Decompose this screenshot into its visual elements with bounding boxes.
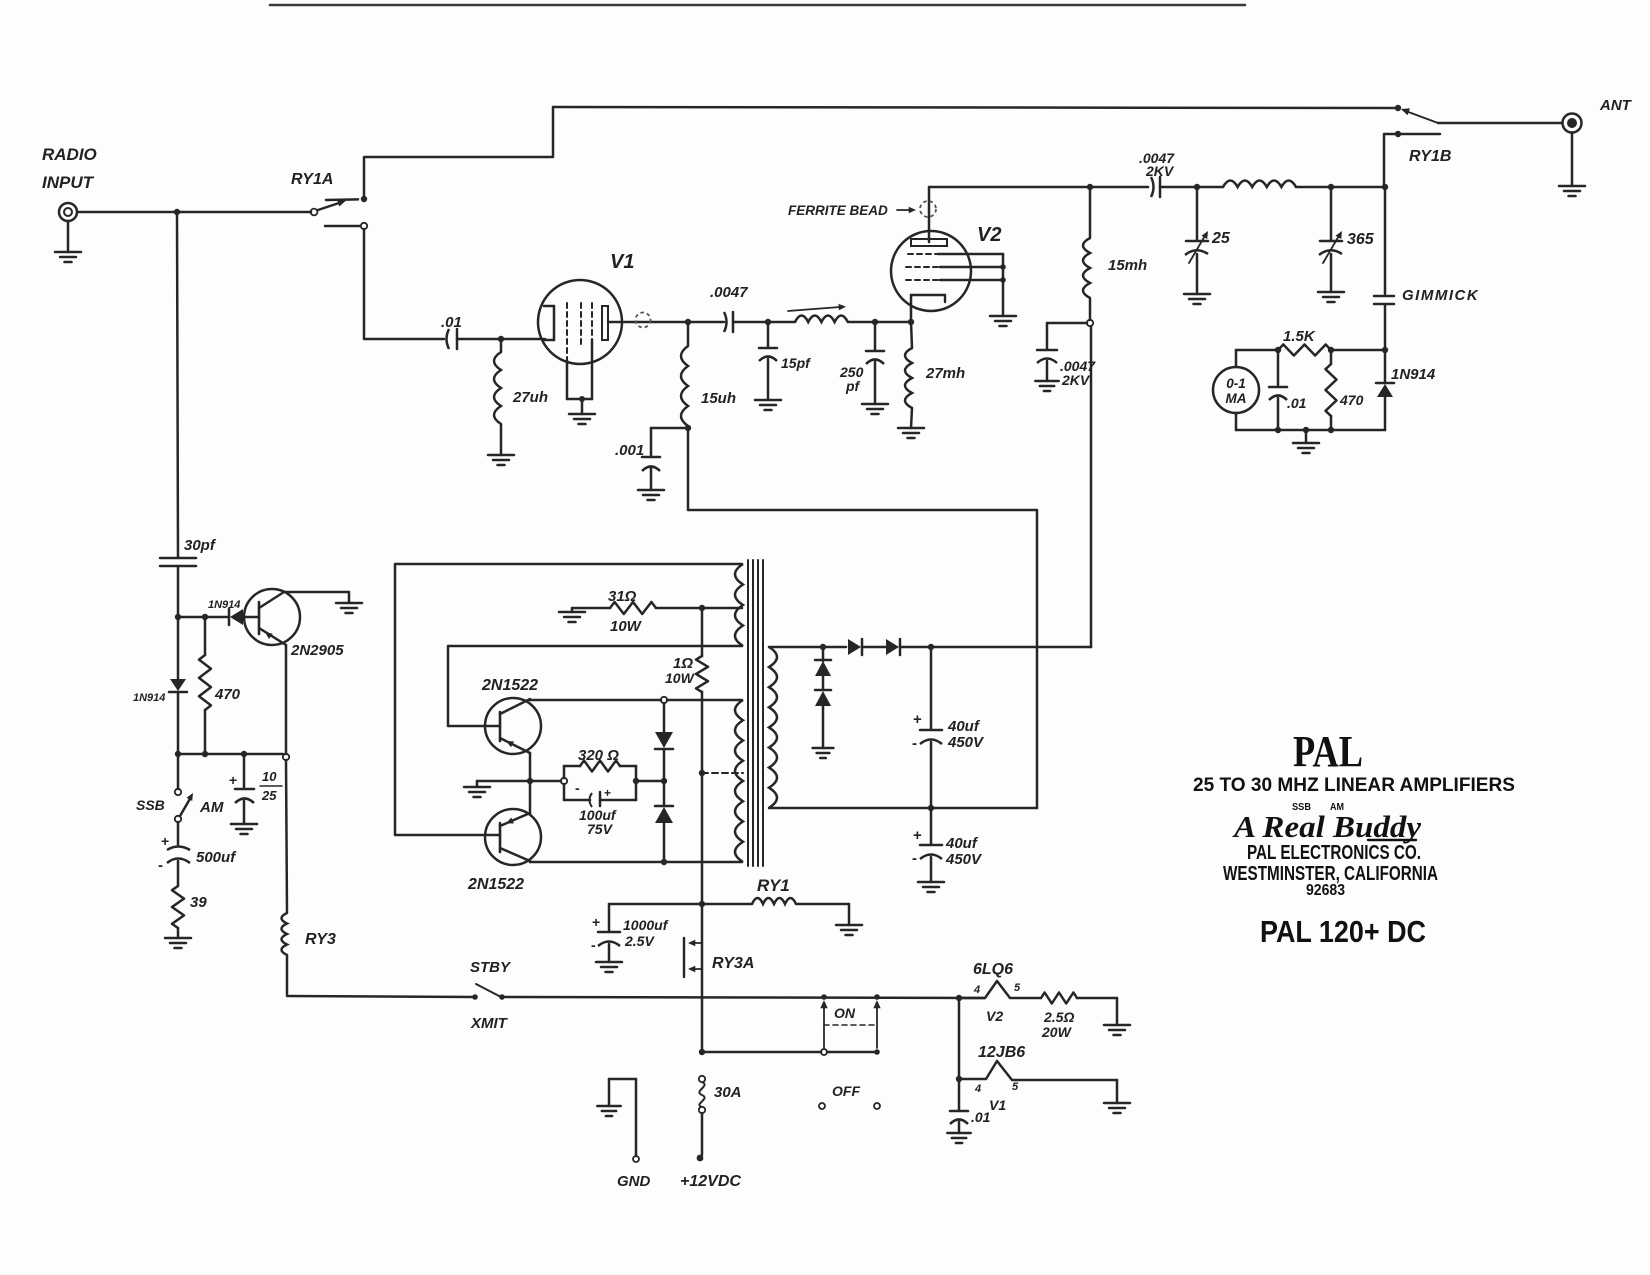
svg-text:15uh: 15uh (701, 390, 736, 407)
svg-text:PAL: PAL (1293, 727, 1363, 776)
svg-text:pf: pf (845, 378, 861, 394)
wire B+ runner to supply (688, 428, 1037, 808)
variable capacitor 365 (1330, 187, 1333, 240)
diode rectifier D2 (886, 639, 899, 655)
ground (6LQ6) (1104, 1024, 1130, 1027)
capacitor 15pf (767, 322, 770, 347)
svg-text:-: - (912, 735, 917, 752)
wire secondary bottom (769, 807, 1037, 810)
ferrite bead (920, 201, 936, 217)
wire bias bus (178, 753, 283, 756)
svg-text:2.5V: 2.5V (624, 933, 655, 949)
320 ohm / 100uf network (530, 780, 561, 783)
ground (25) (1184, 293, 1210, 296)
wire to V1 cathode (501, 338, 545, 341)
svg-text:ON: ON (834, 1005, 856, 1021)
svg-text:RY1A: RY1A (291, 171, 333, 188)
ground (ANT) (1559, 185, 1585, 188)
capacitor GIMMICK (1374, 295, 1394, 298)
node 12V bus (699, 1049, 705, 1055)
node plate choke top (1087, 184, 1093, 190)
svg-text:1N914: 1N914 (208, 599, 240, 611)
wire 12V column (701, 904, 704, 1052)
relay coil RY3 (286, 760, 287, 913)
svg-text:1000uf: 1000uf (623, 917, 669, 933)
wire jack to ground (67, 221, 70, 252)
svg-text:V1: V1 (989, 1097, 1006, 1113)
svg-text:5: 5 (1012, 1081, 1019, 1093)
svg-text:2KV: 2KV (1061, 372, 1091, 388)
svg-text:A Real Buddy: A Real Buddy (1232, 809, 1421, 844)
node 25pf cap (1194, 184, 1200, 190)
svg-text:92683: 92683 (1306, 882, 1345, 899)
svg-text:500uf: 500uf (196, 849, 237, 866)
svg-text:4: 4 (973, 984, 980, 996)
svg-text:25: 25 (1211, 230, 1231, 247)
diode string (clamp) (663, 703, 666, 732)
svg-text:.01: .01 (1287, 395, 1307, 411)
svg-text:25: 25 (261, 788, 277, 803)
svg-text:GND: GND (617, 1173, 651, 1190)
capacitor 500uf (177, 822, 180, 846)
Q2 collector wire (500, 699, 530, 714)
capacitor .001 (651, 427, 688, 430)
svg-text:365: 365 (1347, 231, 1375, 248)
svg-text:-: - (591, 937, 596, 953)
svg-text:.01: .01 (441, 314, 462, 331)
wire input junction down to 30pf (177, 212, 178, 558)
node B+ (928, 644, 934, 650)
wire B+ vertical to rectifier (1090, 326, 1093, 647)
ground (12JB6) (1104, 1102, 1130, 1105)
node 365 cap (1328, 184, 1334, 190)
V2 grid bus to ground (1002, 254, 1005, 316)
wire XMIT bus (502, 997, 985, 998)
svg-text:0-1: 0-1 (1226, 376, 1246, 391)
ground (RY1) (836, 924, 862, 927)
RY1B lower throw (1395, 131, 1401, 137)
svg-text:75V: 75V (587, 821, 614, 837)
ground (.001) (638, 489, 664, 492)
svg-text:OFF: OFF (832, 1083, 860, 1099)
resistor 2.5 ohm 20W (1041, 993, 1077, 1004)
svg-text:MA: MA (1226, 391, 1247, 406)
fuse 30A (699, 1076, 705, 1082)
V1 plate lead with parasitic bead (608, 321, 688, 324)
inductor 15uh (687, 322, 690, 346)
capacitor 1000uf 2.5V (608, 904, 611, 931)
node 31ohm / 1ohm tap (699, 605, 705, 611)
wire top bus to RY1B (553, 107, 1398, 108)
ground (meter network) (1303, 427, 1309, 433)
svg-text:+12VDC: +12VDC (680, 1173, 741, 1190)
ground (15pf) (755, 399, 781, 402)
svg-text:+: + (604, 786, 611, 800)
ground (39) (165, 937, 191, 940)
svg-text:+: + (913, 827, 922, 844)
capacitor 40uf 450V (upper) (930, 647, 933, 729)
wire jack to RY1A (77, 211, 311, 214)
resistor 470 (meter) (1330, 350, 1333, 364)
svg-text:+: + (592, 914, 600, 930)
inductor 27uh (V1 grid) (500, 339, 503, 352)
svg-text:RY1: RY1 (757, 876, 790, 895)
wire meter network bottom (1236, 429, 1385, 432)
inductor 27mh (V2 cathode) (911, 322, 912, 348)
ground (V2 grids) (990, 315, 1016, 318)
svg-text:470: 470 (214, 686, 241, 703)
meter 0-1 MA (1213, 367, 1259, 413)
ground (filter) (918, 881, 944, 884)
capacitor 40uf 450V (lower) (930, 808, 933, 844)
inductor tank coil (1223, 181, 1296, 188)
node meter network top right (1382, 347, 1388, 353)
svg-text:FERRITE BEAD: FERRITE BEAD (788, 203, 888, 218)
wire heater column (958, 998, 961, 1079)
node common emitters (527, 778, 533, 784)
svg-text:RY3: RY3 (305, 931, 336, 948)
node top bus end (1395, 105, 1401, 111)
ground (.0047 2KV shunt) (1035, 380, 1058, 383)
svg-text:1N914: 1N914 (133, 692, 165, 704)
wire lower bus (702, 1051, 821, 1054)
svg-text:SSB: SSB (136, 797, 165, 813)
node input junction (174, 209, 180, 215)
svg-text:2.5Ω: 2.5Ω (1043, 1009, 1074, 1025)
V1 internal leads to ground (566, 360, 569, 399)
node RY1B column (1382, 184, 1388, 190)
svg-text:1.5K: 1.5K (1283, 328, 1316, 345)
node diode string bottom (661, 859, 667, 865)
svg-text:2N1522: 2N1522 (481, 677, 538, 694)
svg-text:320 Ω: 320 Ω (578, 747, 619, 764)
resistor 39 (172, 886, 184, 928)
ground (Q1) (336, 602, 362, 605)
V2 plate lead (928, 187, 931, 242)
svg-text:2N1522: 2N1522 (467, 876, 524, 893)
svg-text:4: 4 (974, 1083, 981, 1095)
node filter caps (928, 805, 934, 811)
svg-text:PAL ELECTRONICS CO.: PAL ELECTRONICS CO. (1247, 842, 1421, 864)
ground (10/25) (231, 823, 257, 826)
GND stub (597, 1105, 620, 1108)
RY1A lower throw stub (325, 225, 360, 228)
node RY1 line / 1 ohm (699, 901, 705, 907)
wire secondary top to rectifier (769, 646, 846, 649)
wire RY3 to STBY switch (287, 996, 474, 997)
node 250pf top (872, 319, 878, 325)
switch SSB/AM (177, 754, 180, 789)
T1 primary upper winding (735, 564, 743, 646)
svg-text:10W: 10W (610, 618, 643, 635)
wire meter top (1236, 349, 1278, 352)
ground (heater cap) (947, 1132, 970, 1135)
ground (clamp) (813, 747, 834, 750)
svg-text:1N914: 1N914 (1391, 366, 1436, 383)
V1 plate element (602, 306, 608, 340)
svg-text:12JB6: 12JB6 (978, 1044, 1025, 1061)
svg-text:30A: 30A (714, 1084, 742, 1101)
svg-text:40uf: 40uf (947, 718, 981, 735)
Q3 collector (500, 848, 530, 861)
ground (emitters) (477, 780, 530, 783)
svg-text:.01: .01 (971, 1109, 991, 1125)
svg-text:40uf: 40uf (945, 835, 979, 852)
node 15uh bottom (685, 425, 691, 431)
svg-text:RADIO: RADIO (42, 145, 97, 164)
capacitor .01 (heater) (958, 1079, 961, 1110)
svg-text:+: + (913, 711, 922, 728)
V2 cathode bar (911, 294, 945, 296)
svg-text:470: 470 (1339, 392, 1364, 408)
svg-text:6LQ6: 6LQ6 (973, 961, 1013, 978)
relay contact RY3A (683, 938, 685, 977)
svg-text:450V: 450V (947, 734, 985, 751)
svg-text:10: 10 (262, 769, 277, 784)
variable capacitor 25 (1196, 187, 1199, 240)
svg-text:15pf: 15pf (781, 355, 811, 371)
page top edge artifact (270, 4, 1245, 7)
wire bottom winding (530, 861, 742, 864)
V2 plate bar (911, 239, 947, 246)
diode rectifier D1 (848, 639, 861, 655)
T1 secondary winding (769, 647, 777, 808)
transformer T1 core (747, 560, 749, 866)
node heater branch (956, 995, 962, 1001)
V2 grid lines (908, 253, 938, 255)
wire RY1 feed (609, 903, 752, 906)
svg-text:2N2905: 2N2905 (290, 642, 344, 659)
svg-text:-: - (912, 850, 917, 867)
wire V2 plate to tank (929, 186, 1148, 189)
capacitor 10/25 (243, 754, 246, 787)
node RY1A upper throw (361, 196, 367, 202)
T1 primary lower winding (735, 700, 743, 862)
node 27uh top (498, 336, 504, 342)
svg-text:-: - (575, 780, 580, 796)
svg-text:39: 39 (190, 894, 207, 911)
ground (27mh) (898, 427, 924, 430)
svg-text:10W: 10W (665, 670, 696, 686)
resistor 470 (left) (204, 617, 207, 655)
V1 cathode element (553, 306, 556, 340)
Q1 emitter (259, 628, 286, 645)
inductor 15mh (plate choke) (1089, 187, 1092, 238)
inductor (slug tuned) with arrow (795, 316, 848, 323)
V1 grids (dashed) (566, 303, 568, 360)
svg-text:GIMMICK: GIMMICK (1402, 287, 1479, 304)
Q2 base wire from winding (448, 646, 742, 726)
svg-text:27uh: 27uh (512, 389, 548, 406)
radio input coax jack J1 (59, 203, 77, 221)
node V1 plate junction (685, 319, 691, 325)
svg-text:XMIT: XMIT (470, 1015, 509, 1032)
svg-text:PAL 120+ DC: PAL 120+ DC (1260, 914, 1426, 949)
ground (radio input) (55, 251, 81, 254)
node diode string top (661, 697, 667, 703)
svg-text:V1: V1 (610, 251, 634, 273)
svg-text:5: 5 (1014, 982, 1021, 994)
wire feedback box (395, 564, 742, 835)
svg-text:RY1B: RY1B (1409, 148, 1451, 165)
svg-text:30pf: 30pf (184, 537, 217, 554)
ground (1000uf) (596, 961, 622, 964)
svg-text:ANT: ANT (1599, 97, 1633, 114)
Q3 emitter (500, 813, 530, 826)
svg-text:+: + (229, 772, 237, 788)
wire RY1B node down (1384, 187, 1387, 294)
svg-text:15mh: 15mh (1108, 257, 1147, 274)
ground (27uh) (488, 454, 514, 457)
svg-text:INPUT: INPUT (42, 173, 95, 192)
svg-text:450V: 450V (945, 851, 983, 868)
clamp diodes to ground (822, 647, 825, 661)
Q2 emitter (500, 738, 530, 753)
svg-text:AM: AM (199, 799, 224, 816)
node V2 cathode junction (908, 319, 914, 325)
ground (365) (1318, 291, 1344, 294)
T1 center tap wire (702, 772, 743, 774)
svg-text:V2: V2 (977, 224, 1001, 246)
svg-text:V2: V2 (986, 1008, 1003, 1024)
wire RY1A lower throw down to .01 (364, 229, 444, 339)
node detector top (175, 614, 181, 620)
wire RY1A upper throw to top bus (364, 107, 553, 199)
capacitor .0047 2KV (shunt bypass) (1047, 322, 1087, 325)
svg-text:+: + (161, 833, 169, 849)
svg-text:.0047: .0047 (710, 284, 748, 301)
svg-text:-: - (158, 857, 163, 874)
svg-text:.001: .001 (615, 442, 644, 459)
svg-text:25 TO 30 MHZ LINEAR AMPLIFIERS: 25 TO 30 MHZ LINEAR AMPLIFIERS (1193, 775, 1515, 796)
node clamp diodes (820, 644, 826, 650)
svg-text:20W: 20W (1041, 1024, 1073, 1040)
capacitor .01 (meter) (1277, 350, 1280, 386)
svg-text:RY3A: RY3A (712, 955, 754, 972)
svg-text:STBY: STBY (470, 959, 512, 976)
capacitor 250pf (874, 322, 877, 350)
ground (250pf) (862, 403, 888, 406)
wire arm to ANT (1438, 122, 1561, 125)
wire tank to RY1B node (1331, 186, 1385, 189)
node 15pf top (765, 319, 771, 325)
Q1 collector to ground (259, 592, 349, 608)
relay contact RY1B arm (1403, 110, 1438, 123)
ground (V1) (569, 413, 595, 416)
switch ON (arrows) (823, 1004, 825, 1048)
svg-text:27mh: 27mh (925, 365, 965, 382)
